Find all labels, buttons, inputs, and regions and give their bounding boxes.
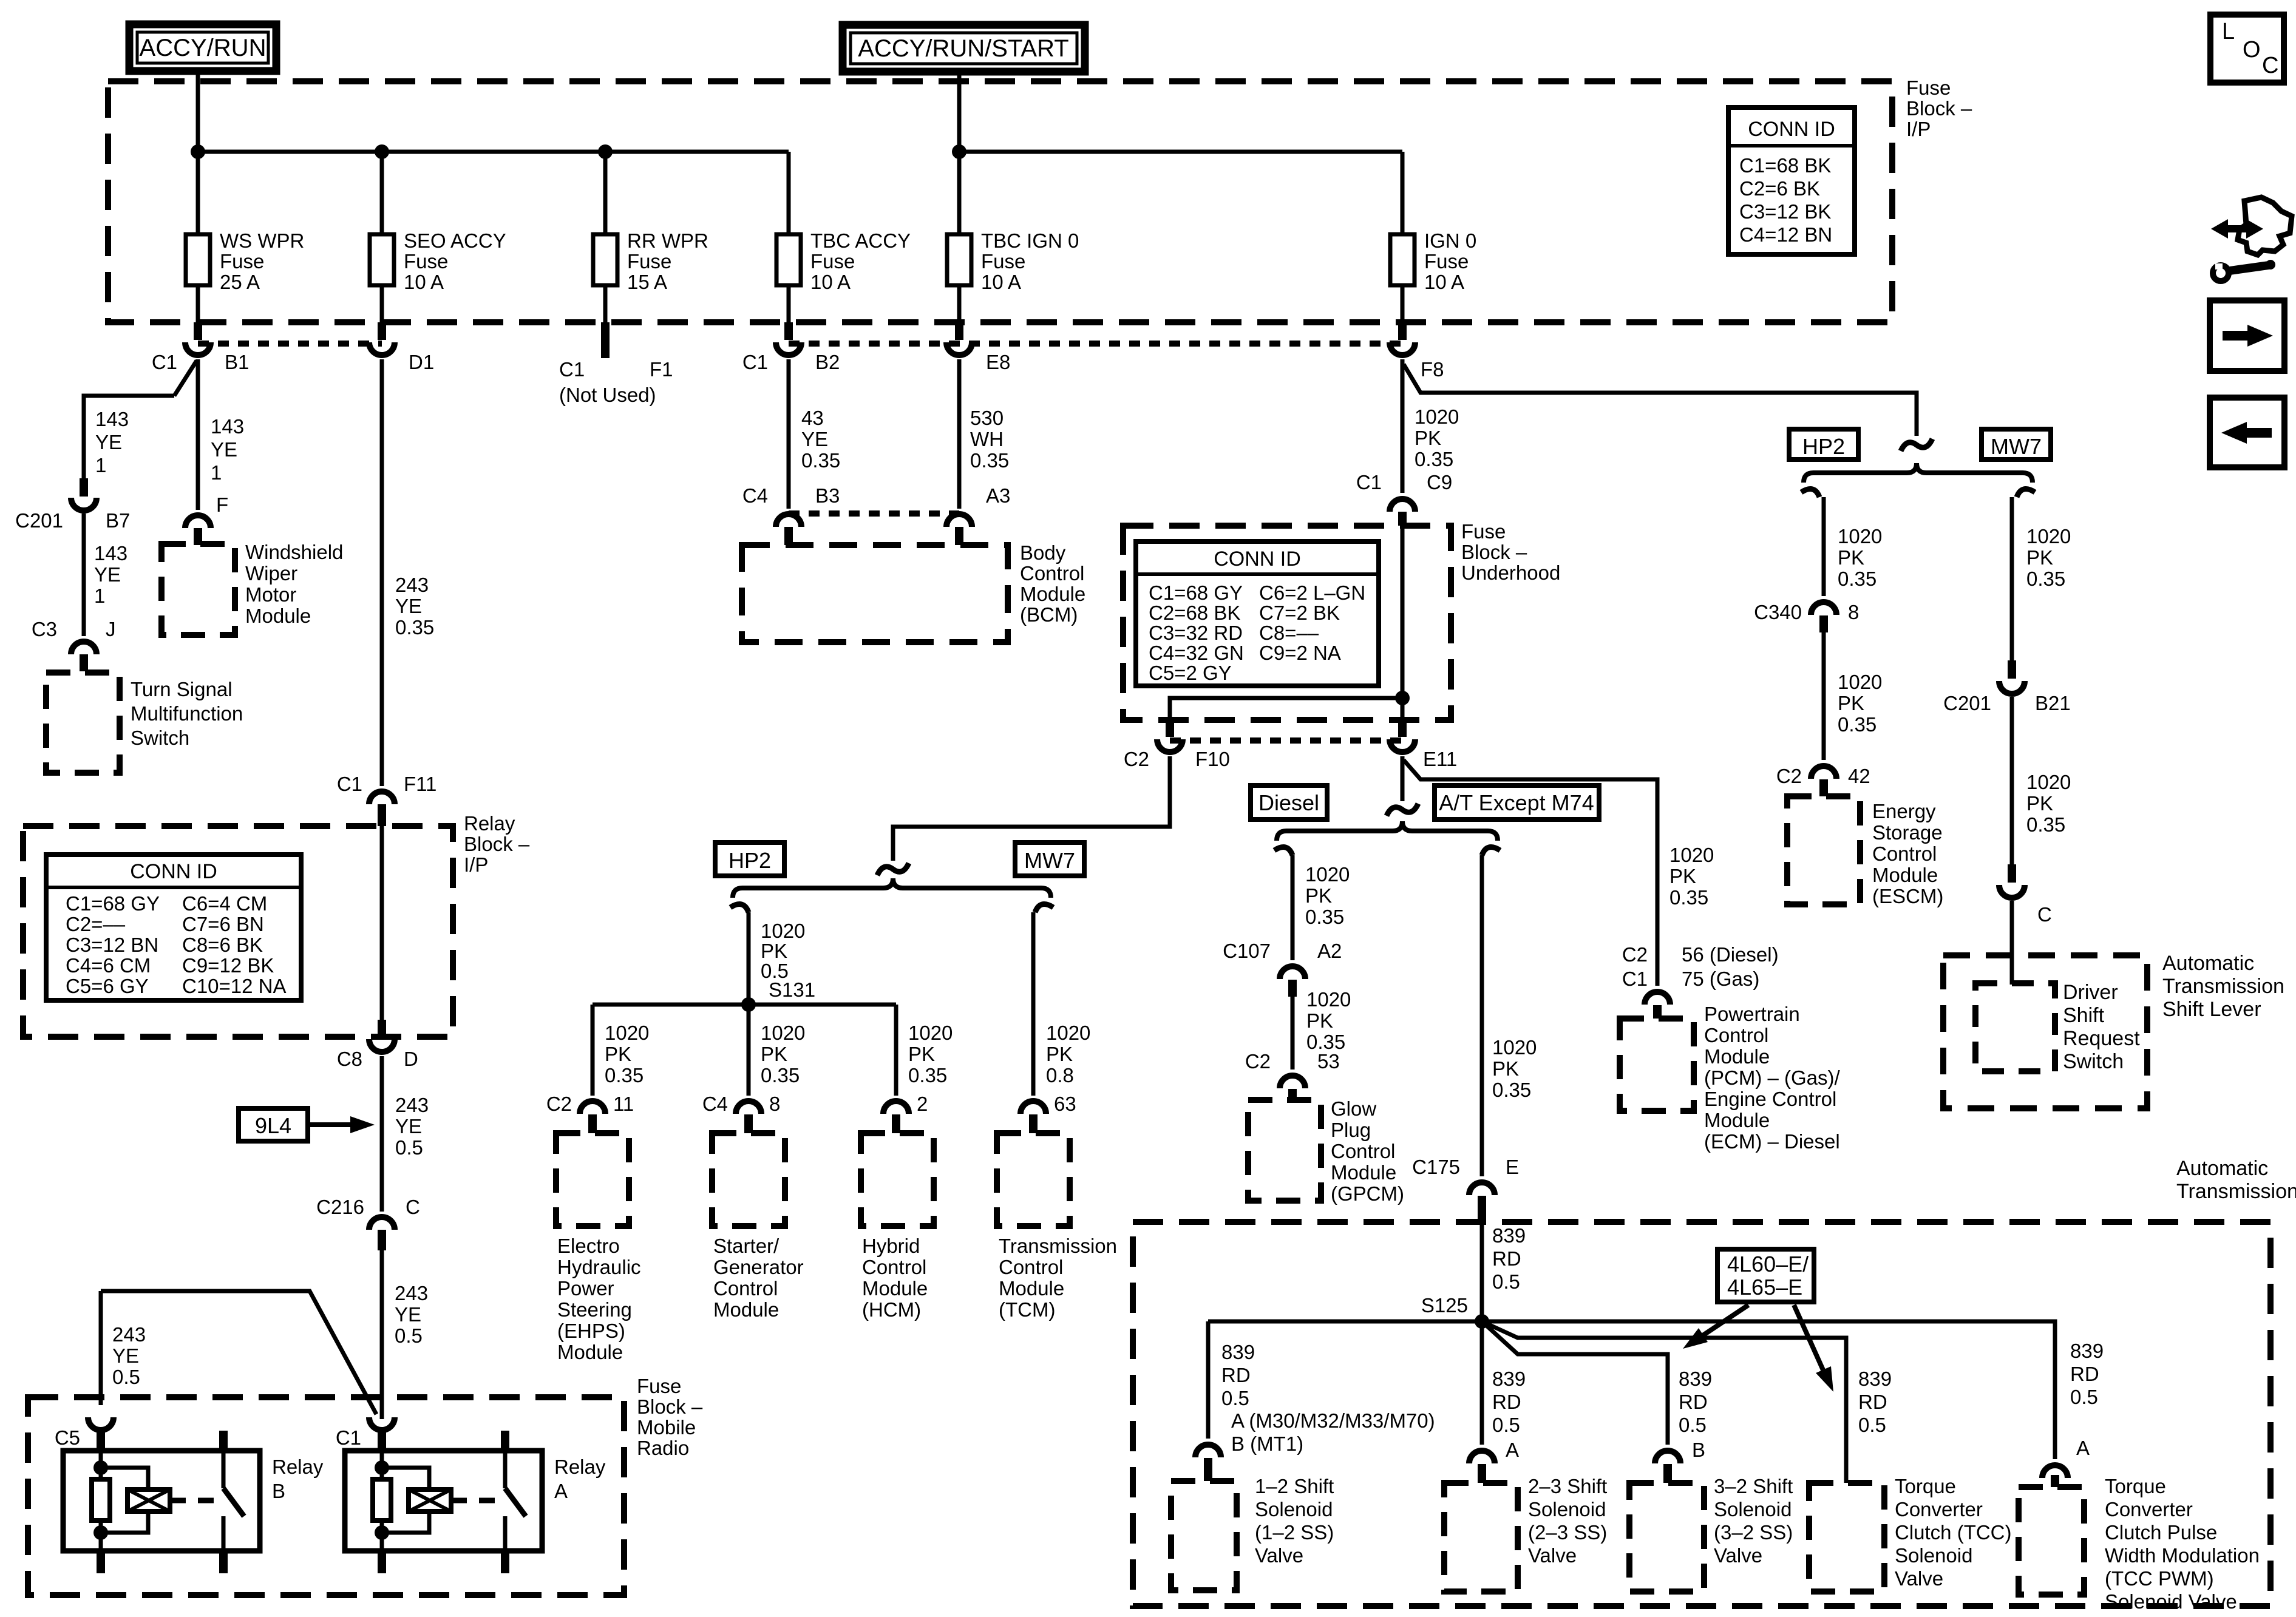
1-2 shift solenoid valve dashed box (1171, 1481, 1237, 1590)
svg-text:C1=68 BK: C1=68 BK (1739, 154, 1831, 177)
svg-text:Block –: Block – (464, 833, 530, 855)
svg-text:RD: RD (1858, 1391, 1887, 1413)
svg-text:1020: 1020 (1492, 1036, 1537, 1059)
wire C201 to C3 (82, 514, 86, 636)
TCC solenoid valve dashed box (1809, 1483, 1884, 1592)
svg-text:1020: 1020 (761, 920, 805, 942)
svg-text:Shift Lever: Shift Lever (2162, 998, 2261, 1021)
svg-text:F10: F10 (1195, 748, 1230, 770)
svg-text:Module: Module (999, 1277, 1064, 1300)
Diesel reference box (1251, 785, 1327, 819)
EHPS module dashed box (556, 1133, 629, 1226)
svg-text:D1: D1 (409, 351, 434, 373)
svg-text:A/T Except M74: A/T Except M74 (1439, 790, 1594, 815)
svg-text:WH: WH (970, 428, 1004, 450)
svg-text:Converter: Converter (2105, 1498, 2193, 1520)
windshield wiper motor module dashed box (161, 544, 235, 635)
svg-text:RD: RD (2070, 1363, 2099, 1385)
connector 2 (883, 1101, 909, 1114)
relay B (63, 1451, 260, 1551)
svg-text:B2: B2 (815, 351, 840, 373)
connector C4/8 (736, 1101, 761, 1114)
connector C1 (relay A) (369, 1417, 395, 1430)
svg-text:0.5: 0.5 (112, 1366, 140, 1388)
svg-text:C3: C3 (32, 618, 57, 640)
4L60-E/4L65-E reference box (1717, 1249, 1814, 1302)
connector C2/53 (1280, 1076, 1305, 1088)
connector body dotted line C1 (B1-D1) (198, 341, 382, 347)
svg-text:243: 243 (395, 574, 429, 596)
svg-text:Block –: Block – (1906, 97, 1972, 120)
svg-text:RD: RD (1221, 1364, 1251, 1386)
svg-text:C1=68 GY: C1=68 GY (66, 892, 160, 915)
connector C1/D1 (378, 322, 386, 340)
svg-text:E8: E8 (986, 351, 1010, 373)
brace Diesel/AT split (1277, 821, 1498, 841)
svg-text:1020: 1020 (1838, 671, 1882, 693)
svg-text:B: B (1692, 1439, 1705, 1461)
svg-text:Clutch (TCC): Clutch (TCC) (1895, 1521, 2012, 1544)
svg-text:Block –: Block – (1461, 541, 1527, 563)
svg-text:(GPCM): (GPCM) (1331, 1182, 1404, 1205)
svg-text:839: 839 (1221, 1341, 1255, 1363)
svg-text:0.35: 0.35 (1415, 448, 1453, 470)
svg-text:C2: C2 (1245, 1050, 1271, 1073)
svg-text:B21: B21 (2035, 692, 2071, 714)
svg-text:0.35: 0.35 (970, 449, 1009, 472)
svg-text:75 (Gas): 75 (Gas) (1682, 968, 1759, 990)
connector A (2-3 SS) (1469, 1451, 1495, 1463)
svg-text:0.35: 0.35 (908, 1064, 947, 1086)
A/T Except M74 reference box (1435, 785, 1599, 819)
wire branch down to C5 (99, 1291, 103, 1405)
junction dot (191, 144, 205, 159)
svg-text:Converter: Converter (1895, 1498, 1983, 1520)
svg-text:Fuse: Fuse (637, 1375, 681, 1397)
wire break symbol (1387, 804, 1418, 816)
svg-text:56 (Diesel): 56 (Diesel) (1682, 943, 1779, 966)
svg-text:Shift: Shift (2063, 1004, 2105, 1027)
svg-text:Glow: Glow (1331, 1097, 1376, 1120)
energy storage control module dashed box (1787, 796, 1860, 904)
svg-text:Motor: Motor (245, 583, 296, 606)
svg-text:YE: YE (395, 1303, 421, 1326)
connector C2/C1 (PCM) (1645, 992, 1670, 1005)
relay A (345, 1451, 542, 1551)
svg-text:F11: F11 (404, 773, 436, 795)
wire S131 to starter/generator (747, 1005, 751, 1096)
svg-text:ACCY/RUN: ACCY/RUN (140, 35, 267, 61)
svg-text:Solenoid: Solenoid (1714, 1498, 1792, 1520)
svg-text:PK: PK (761, 940, 787, 962)
svg-text:Control: Control (999, 1256, 1063, 1278)
svg-text:C: C (2262, 53, 2278, 78)
wire C216 to relay C1 (380, 1250, 384, 1419)
connector A (TCC PWM) (2042, 1465, 2068, 1478)
svg-text:0.5: 0.5 (395, 1136, 423, 1159)
svg-text:YE: YE (112, 1344, 139, 1367)
svg-text:143: 143 (94, 542, 127, 564)
junction dot S131 (741, 997, 756, 1012)
svg-text:1020: 1020 (1305, 863, 1350, 886)
svg-text:Relay: Relay (554, 1456, 606, 1478)
svg-text:0.35: 0.35 (801, 449, 840, 472)
svg-text:11: 11 (613, 1093, 634, 1115)
svg-text:Turn Signal: Turn Signal (131, 678, 233, 700)
svg-text:YE: YE (211, 438, 237, 461)
fuse SEO ACCY 10A (380, 152, 384, 234)
svg-text:Torque: Torque (2105, 1475, 2166, 1497)
svg-text:Control: Control (713, 1277, 778, 1300)
brace HP2/MW7 split (right) (1804, 463, 2033, 483)
svg-text:C1: C1 (742, 351, 768, 373)
connector body dotted line (B2-F8) (789, 341, 1402, 347)
svg-text:C2: C2 (1622, 943, 1648, 966)
svg-text:Module: Module (713, 1298, 779, 1321)
HP2 reference box (right) (1789, 429, 1858, 459)
svg-text:A: A (554, 1480, 568, 1502)
svg-text:(1–2 SS): (1–2 SS) (1255, 1521, 1334, 1544)
wire E8 to A3 (957, 359, 962, 509)
svg-text:C1: C1 (1356, 471, 1382, 493)
powertrain control module dashed box (1620, 1019, 1694, 1111)
svg-text:B: B (272, 1480, 285, 1502)
svg-text:Module: Module (1872, 864, 1938, 886)
svg-text:0.5: 0.5 (395, 1324, 423, 1347)
svg-text:C1: C1 (336, 1426, 361, 1449)
svg-text:0.35: 0.35 (605, 1064, 644, 1086)
svg-text:Solenoid: Solenoid (1895, 1544, 1972, 1567)
svg-text:Windshield: Windshield (245, 541, 343, 563)
LOC reference box (2210, 15, 2284, 83)
svg-text:Valve: Valve (1255, 1544, 1303, 1567)
svg-text:C2=6 BK: C2=6 BK (1739, 177, 1820, 200)
wire A/T branch to C175 (1480, 855, 1484, 1176)
hook to HP2 branch (730, 904, 749, 912)
3-2 shift solenoid valve dashed box (1629, 1483, 1704, 1592)
connector F8 (1398, 322, 1407, 340)
wire B1 branch to C201 (174, 361, 197, 396)
svg-text:Automatic: Automatic (2162, 952, 2254, 975)
svg-text:PK: PK (2026, 792, 2053, 815)
svg-text:C340: C340 (1754, 601, 1802, 623)
svg-text:C4: C4 (742, 484, 768, 507)
svg-text:0.35: 0.35 (1838, 568, 1877, 590)
wire D1 to F11 (380, 359, 384, 786)
svg-text:C201: C201 (15, 509, 63, 532)
connector C4/B3 (776, 514, 801, 527)
MW7 reference box (right) (1982, 429, 2051, 459)
connector E8 (955, 322, 963, 340)
service icon outline shape (2238, 197, 2292, 255)
wire S125 to 1-2 shift solenoid (1208, 1320, 1482, 1324)
svg-text:YE: YE (94, 563, 121, 586)
svg-text:530: 530 (970, 407, 1004, 429)
svg-text:4L60–E/: 4L60–E/ (1727, 1252, 1809, 1276)
wire C340 to C2 (1822, 632, 1826, 760)
connector C1/C9 (1390, 499, 1415, 512)
svg-text:1–2 Shift: 1–2 Shift (1255, 1475, 1334, 1497)
svg-text:PK: PK (605, 1043, 631, 1065)
svg-text:0.35: 0.35 (1838, 713, 1877, 736)
svg-text:YE: YE (395, 595, 422, 617)
CONN ID box (relay block) (46, 855, 301, 1000)
hook to HP2 branch (right) (1801, 489, 1819, 497)
svg-text:Relay: Relay (464, 812, 515, 835)
svg-text:WS WPR: WS WPR (220, 229, 304, 252)
svg-text:C8: C8 (337, 1048, 362, 1070)
svg-text:2–3 Shift: 2–3 Shift (1528, 1475, 1607, 1497)
connector C2/42 (1811, 766, 1836, 779)
service icon double arrow (2211, 219, 2263, 239)
svg-text:Body: Body (1020, 541, 1066, 564)
svg-text:0.35: 0.35 (1669, 886, 1708, 909)
svg-text:Generator: Generator (713, 1256, 804, 1278)
fuse WS WPR 25A (196, 152, 200, 234)
svg-text:C175: C175 (1412, 1156, 1460, 1178)
wire break symbol (877, 863, 909, 875)
svg-text:C9=2 NA: C9=2 NA (1259, 642, 1341, 664)
svg-text:1: 1 (211, 461, 222, 484)
svg-text:C4=12 BN: C4=12 BN (1739, 223, 1832, 246)
svg-text:Power: Power (557, 1277, 614, 1300)
svg-text:(BCM): (BCM) (1020, 603, 1078, 626)
svg-text:C1: C1 (559, 358, 585, 381)
connector body dotted line (F10-E11) (1170, 737, 1402, 744)
svg-text:Powertrain: Powertrain (1704, 1003, 1800, 1025)
svg-text:839: 839 (1492, 1224, 1526, 1247)
svg-text:HP2: HP2 (1802, 434, 1845, 459)
svg-text:15 A: 15 A (627, 271, 667, 293)
svg-text:Control: Control (1872, 842, 1937, 865)
arrow 4L60 to TCC branch (1794, 1305, 1823, 1370)
svg-text:PK: PK (1046, 1043, 1073, 1065)
svg-text:(TCC PWM): (TCC PWM) (2105, 1567, 2214, 1590)
svg-text:(EHPS): (EHPS) (557, 1320, 625, 1342)
svg-text:B7: B7 (106, 509, 130, 532)
wire C9 through underhood block (1401, 526, 1405, 720)
svg-text:C9=12 BK: C9=12 BK (182, 954, 274, 977)
svg-text:1020: 1020 (1046, 1022, 1090, 1044)
svg-text:C: C (2037, 903, 2052, 926)
svg-text:Driver: Driver (2063, 981, 2118, 1004)
fuse block underhood dashed box (1123, 526, 1451, 720)
power feed box ACCY/RUN (129, 24, 276, 71)
svg-text:Relay: Relay (272, 1456, 324, 1478)
svg-text:839: 839 (2070, 1340, 2104, 1362)
MW7 reference box (1015, 842, 1084, 876)
wire A2 to C2 (1291, 997, 1295, 1070)
svg-text:YE: YE (95, 431, 122, 453)
svg-text:3–2 Shift: 3–2 Shift (1714, 1475, 1793, 1497)
svg-text:Steering: Steering (557, 1298, 632, 1321)
junction dot (375, 144, 389, 159)
svg-text:C2=68 BK: C2=68 BK (1149, 602, 1240, 624)
svg-text:0.8: 0.8 (1046, 1064, 1074, 1086)
svg-text:243: 243 (395, 1282, 428, 1304)
svg-text:C3=32 RD: C3=32 RD (1149, 622, 1243, 644)
junction dot (598, 144, 613, 159)
svg-text:0.5: 0.5 (1221, 1387, 1249, 1409)
svg-text:D: D (404, 1048, 418, 1070)
svg-text:B3: B3 (815, 484, 840, 507)
svg-text:0.35: 0.35 (1492, 1079, 1531, 1101)
svg-text:1: 1 (95, 454, 106, 476)
svg-text:O: O (2243, 37, 2261, 63)
wire B2 to B3 (787, 359, 791, 509)
connector E11 (1398, 720, 1407, 737)
svg-text:Switch: Switch (2063, 1050, 2124, 1073)
connector 63 (1021, 1101, 1046, 1114)
svg-text:Storage: Storage (1872, 821, 1943, 844)
connector C216/C (369, 1217, 395, 1230)
wire E11 to PCM (1404, 760, 1657, 986)
svg-text:C107: C107 (1223, 940, 1271, 962)
wire MW7 branch to TCM (1031, 912, 1036, 1096)
svg-text:PK: PK (1305, 884, 1332, 907)
hook to A/T branch (1482, 847, 1500, 855)
wire break symbol (1901, 439, 1932, 451)
svg-text:Control: Control (1331, 1140, 1395, 1162)
svg-text:Hybrid: Hybrid (862, 1235, 920, 1257)
svg-text:63: 63 (1054, 1093, 1076, 1115)
wire F8 to HP2/MW7 split (1404, 364, 1917, 436)
svg-text:(PCM) – (Gas)/: (PCM) – (Gas)/ (1704, 1066, 1841, 1089)
svg-text:Electro: Electro (557, 1235, 620, 1257)
bus wire from ACCY/RUN/START (959, 150, 1402, 154)
svg-text:Hydraulic: Hydraulic (557, 1256, 641, 1278)
svg-text:1020: 1020 (1415, 405, 1459, 428)
svg-text:Fuse: Fuse (627, 250, 671, 273)
svg-text:Module: Module (1704, 1045, 1770, 1068)
2-3 shift solenoid valve dashed box (1444, 1483, 1518, 1592)
svg-text:E11: E11 (1423, 748, 1457, 770)
connector C175/E (1469, 1182, 1495, 1195)
wire D to C216 (380, 1056, 384, 1212)
svg-text:1020: 1020 (1838, 525, 1882, 547)
svg-text:C2: C2 (1776, 765, 1802, 787)
fuse TBC IGN 0 10A (957, 152, 962, 234)
connector C1/F1 (Not Used) (601, 322, 610, 358)
connector C107/A2 (1280, 966, 1305, 979)
svg-text:243: 243 (395, 1094, 429, 1116)
svg-text:PK: PK (2026, 546, 2053, 569)
svg-text:243: 243 (112, 1323, 146, 1346)
connector C1/B1 (194, 322, 202, 340)
svg-text:C5=2 GY: C5=2 GY (1149, 662, 1232, 684)
svg-text:Plug: Plug (1331, 1119, 1371, 1141)
svg-text:Valve: Valve (1714, 1544, 1762, 1567)
connector C1/F11 (369, 792, 395, 804)
svg-text:Control: Control (1020, 562, 1084, 585)
svg-text:0.5: 0.5 (2070, 1386, 2098, 1408)
svg-text:Engine Control: Engine Control (1704, 1088, 1836, 1110)
svg-text:PK: PK (908, 1043, 935, 1065)
svg-text:Fuse: Fuse (1906, 76, 1951, 99)
svg-text:A: A (1506, 1439, 1519, 1461)
svg-text:Solenoid: Solenoid (1255, 1498, 1333, 1520)
connector C8/D (378, 1020, 386, 1037)
svg-text:A3: A3 (986, 484, 1010, 507)
svg-text:F: F (216, 493, 228, 516)
svg-text:10 A: 10 A (981, 271, 1021, 293)
svg-text:C216: C216 (316, 1196, 364, 1218)
svg-text:CONN ID: CONN ID (1748, 118, 1835, 141)
svg-text:C1: C1 (152, 351, 177, 373)
svg-text:0.35: 0.35 (761, 1064, 800, 1086)
svg-text:Fuse: Fuse (220, 250, 264, 273)
svg-text:RR WPR: RR WPR (627, 229, 708, 252)
svg-text:Module: Module (1331, 1161, 1396, 1184)
svg-text:E: E (1506, 1156, 1519, 1178)
wire S131 to HCM (894, 1005, 898, 1096)
svg-text:C8=6 BK: C8=6 BK (182, 934, 263, 956)
svg-text:(TCM): (TCM) (999, 1298, 1055, 1321)
svg-text:(3–2 SS): (3–2 SS) (1714, 1521, 1793, 1544)
svg-text:0.35: 0.35 (2026, 568, 2065, 590)
connector C340/8 (1811, 602, 1836, 615)
svg-text:10 A: 10 A (810, 271, 851, 293)
svg-text:PK: PK (1669, 865, 1696, 887)
svg-text:C5=6 GY: C5=6 GY (66, 975, 149, 997)
fuse IGN 0 10A (1401, 152, 1405, 234)
glow plug control module dashed box (1248, 1100, 1321, 1201)
svg-text:Clutch Pulse: Clutch Pulse (2105, 1521, 2217, 1544)
svg-text:10 A: 10 A (1424, 271, 1464, 293)
connector A (1-2 SS) (1195, 1445, 1221, 1457)
svg-text:F1: F1 (650, 358, 673, 381)
wire HP2 branch to S131 (747, 912, 751, 1005)
CONN ID box (underhood) (1136, 541, 1379, 686)
svg-text:ACCY/RUN/START: ACCY/RUN/START (858, 35, 1068, 62)
svg-text:C1=68 GY: C1=68 GY (1149, 581, 1243, 604)
backward arrow box (2210, 398, 2284, 467)
forward arrow box (2210, 300, 2284, 371)
svg-text:S125: S125 (1421, 1294, 1468, 1317)
svg-text:C7=6 BN: C7=6 BN (182, 913, 264, 935)
svg-text:Block –: Block – (637, 1395, 703, 1418)
svg-text:Fuse: Fuse (810, 250, 855, 273)
svg-text:PK: PK (1492, 1057, 1519, 1080)
svg-text:25 A: 25 A (220, 271, 260, 293)
fuse block I/P dashed box (108, 81, 1892, 322)
svg-text:4L65–E: 4L65–E (1727, 1275, 1802, 1300)
svg-text:CONN ID: CONN ID (1214, 547, 1301, 571)
svg-text:IGN 0: IGN 0 (1424, 229, 1476, 252)
driver shift request switch dashed box (1975, 983, 2055, 1071)
svg-text:43: 43 (801, 407, 824, 429)
svg-text:C2: C2 (546, 1093, 572, 1115)
svg-text:C4: C4 (702, 1093, 728, 1115)
svg-text:Fuse: Fuse (1461, 520, 1506, 543)
svg-text:Valve: Valve (1895, 1567, 1943, 1590)
svg-text:0.5: 0.5 (1858, 1414, 1886, 1436)
fuse RR WPR 15A (603, 152, 608, 234)
turn signal multifunction switch dashed box (46, 673, 120, 773)
svg-text:C6=2 L–GN: C6=2 L–GN (1259, 581, 1365, 604)
svg-text:0.5: 0.5 (1679, 1414, 1707, 1436)
svg-text:C10=12 NA: C10=12 NA (182, 975, 287, 997)
svg-text:Automatic: Automatic (2176, 1157, 2268, 1180)
wire E11 down (1401, 756, 1405, 801)
svg-text:Solenoid Valve: Solenoid Valve (2105, 1590, 2237, 1613)
svg-text:143: 143 (95, 408, 129, 430)
svg-text:Switch: Switch (131, 727, 189, 749)
svg-text:C3=12 BK: C3=12 BK (1739, 200, 1831, 223)
connector C201/B21 (2008, 660, 2016, 679)
svg-text:(2–3 SS): (2–3 SS) (1528, 1521, 1607, 1544)
svg-text:8: 8 (769, 1093, 780, 1115)
